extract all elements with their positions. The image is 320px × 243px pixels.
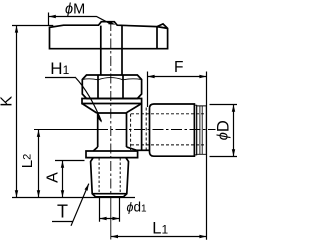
arrowhead L2 top [37,130,40,137]
body-fitting fillet [136,149,150,151]
svg-text:L2: L2 [19,154,36,168]
phid1 dim [100,218,120,220]
flange [86,151,138,158]
stem [101,26,122,75]
hex nut H1 [82,75,141,99]
svg-text:A: A [44,172,61,183]
collar grooves [200,106,202,154]
hex nut face lines [98,75,123,99]
centerline vertical bottom extension [110,200,112,240]
L2 dim [38,130,40,197]
arrowhead K bottom [15,190,18,197]
fitting boss face [141,104,143,151]
arrowhead T leader [85,183,91,191]
phiM ext [48,13,50,26]
arrowhead K top [15,26,18,33]
svg-text:F: F [174,59,183,76]
svg-text:H1: H1 [50,59,69,78]
thread bottom line [92,193,127,195]
arrowhead A top [61,161,64,168]
release collar [197,106,207,154]
T leader [71,184,89,226]
fitting ring [194,105,196,155]
arrowhead phid1 left [100,217,107,220]
phiD dim [233,105,235,157]
A top ext [55,160,85,162]
hidden hole body [130,114,132,150]
F dim line [148,76,207,78]
svg-text:ϕD: ϕD [215,120,233,140]
handle bar [50,22,168,49]
arrowhead phiD bottom [232,149,235,156]
phiD bottom ext [210,156,238,158]
hidden hole fitting [131,114,206,145]
phiM dim line [49,17,109,24]
hex nut chamfer arcs [82,78,141,80]
arrowhead A bottom [61,190,64,197]
K top ext [12,25,53,27]
svg-text:K: K [0,96,15,107]
arrowhead L2 bottom [37,190,40,197]
K dim [16,26,18,198]
arrowhead L1 right [199,235,206,238]
arrowhead F left [148,75,155,78]
arrowhead phid1 right [112,217,119,220]
thread T outline [91,158,129,197]
fitting cylinder [150,104,195,156]
phiD top ext [210,104,238,106]
arrowhead F right [199,75,206,78]
F left ext [147,72,149,108]
svg-text:L1: L1 [152,219,168,237]
fitting hidden thread [145,108,147,151]
right shared ext [206,72,208,240]
neck trapezoid [82,104,142,114]
svg-text:ϕM: ϕM [65,2,85,18]
arrowhead L1 left [111,235,118,238]
arrowhead phiM left [49,15,56,18]
thread root dashed [99,158,120,194]
arrowhead phiM right [108,21,116,26]
handle end face line [157,27,168,49]
A dim [62,161,64,198]
bottom ext line [12,197,135,199]
L1 dim [111,236,206,238]
arrowhead phiD top [232,105,235,112]
svg-text:ϕd1: ϕd1 [127,200,147,215]
T underline [52,221,73,223]
arrowhead H1 leader [97,116,103,124]
centerline horizontal [34,129,97,131]
washer under nut [82,99,142,104]
H1 leader [75,77,102,122]
H1 underline [45,77,75,79]
centerline vertical [110,21,112,200]
svg-text:T: T [57,202,68,222]
phid1 exts [100,198,120,222]
body block [98,113,127,147]
body bottom flare [93,147,136,151]
